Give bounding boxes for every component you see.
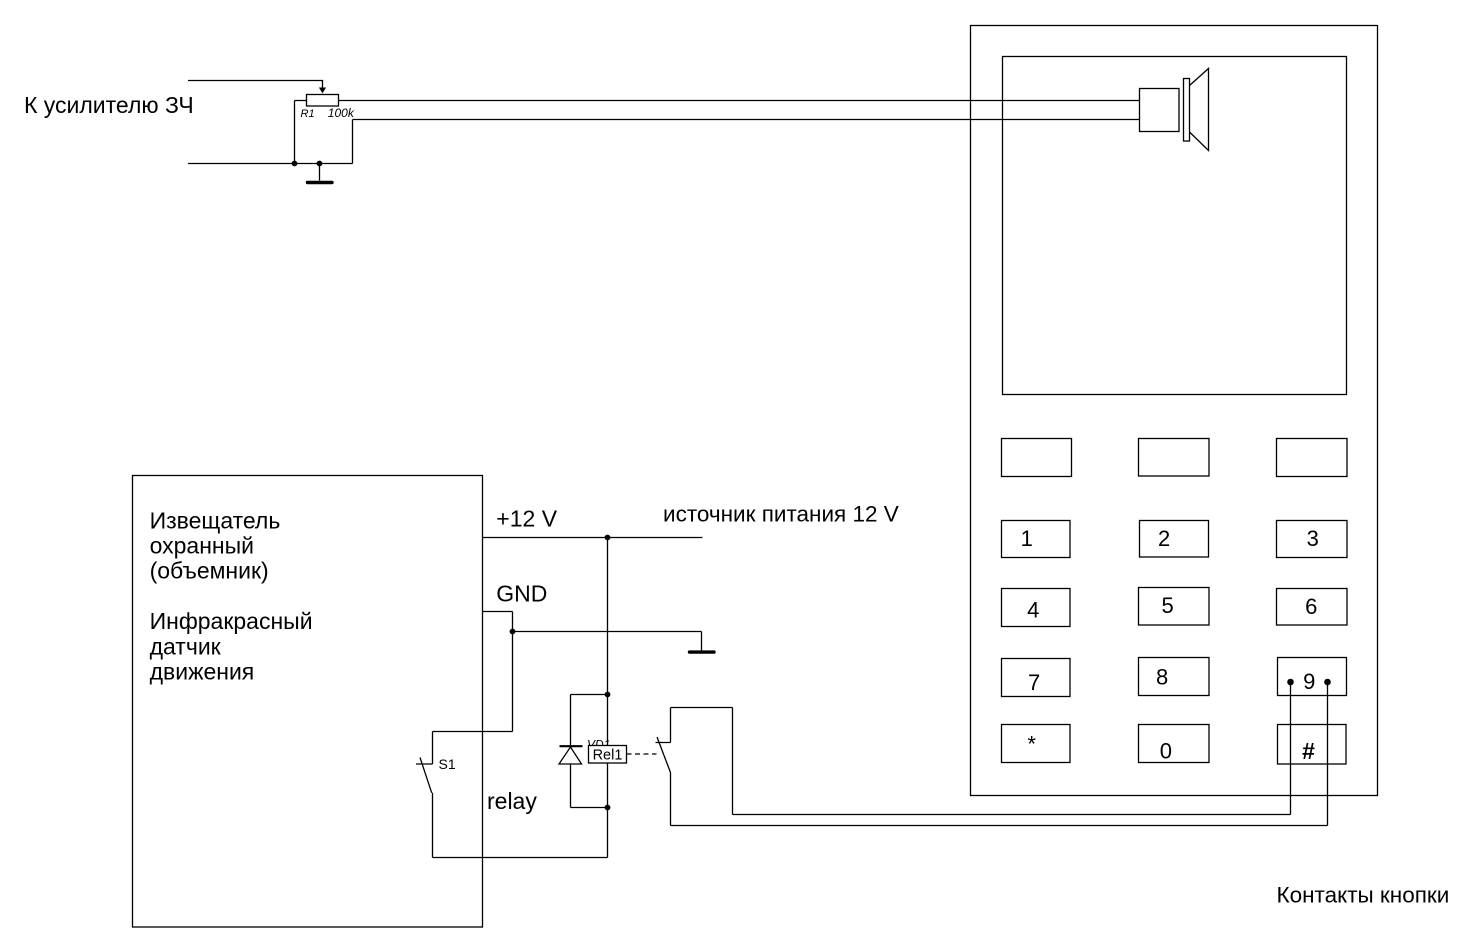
svg-text:relay: relay (487, 788, 537, 814)
svg-text:1: 1 (1021, 526, 1033, 551)
svg-text:Извещатель: Извещатель (150, 507, 281, 533)
svg-text:S1: S1 (439, 756, 456, 772)
svg-text:4: 4 (1027, 598, 1039, 623)
svg-text:9: 9 (1303, 669, 1315, 694)
svg-text:охранный: охранный (150, 533, 254, 559)
svg-text:датчик: датчик (150, 633, 222, 659)
svg-text:5: 5 (1161, 593, 1173, 618)
svg-text:8: 8 (1156, 665, 1168, 690)
svg-text:100k: 100k (328, 106, 355, 120)
svg-text:Инфракрасный: Инфракрасный (150, 608, 313, 634)
svg-text:0: 0 (1160, 739, 1172, 764)
svg-text:6: 6 (1305, 594, 1317, 619)
svg-text:R1: R1 (301, 108, 315, 120)
svg-text:+12 V: +12 V (496, 505, 557, 531)
svg-text:Rel1: Rel1 (593, 747, 623, 763)
svg-text:источник питания 12 V: источник питания 12 V (663, 501, 899, 526)
svg-text:7: 7 (1028, 670, 1040, 695)
svg-text:(объемник): (объемник) (150, 558, 269, 584)
svg-text:Контакты кнопки: Контакты кнопки (1277, 883, 1450, 908)
svg-text:#: # (1302, 738, 1315, 764)
svg-text:GND: GND (496, 581, 547, 607)
svg-text:*: * (1027, 732, 1036, 757)
svg-text:движения: движения (150, 659, 255, 685)
svg-text:К усилителю ЗЧ: К усилителю ЗЧ (24, 92, 194, 118)
svg-text:2: 2 (1158, 526, 1170, 551)
svg-text:3: 3 (1307, 526, 1319, 551)
